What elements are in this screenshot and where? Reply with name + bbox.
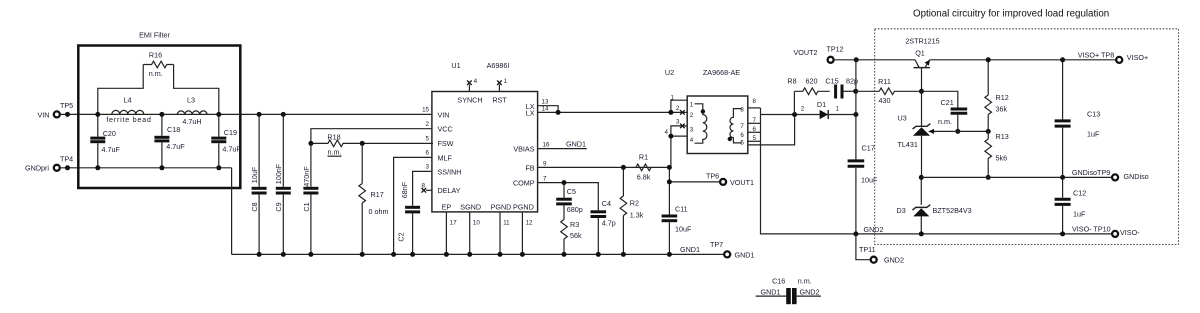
svg-text:GND1: GND1: [680, 245, 700, 254]
svg-text:8: 8: [753, 98, 757, 105]
svg-text:1: 1: [504, 78, 508, 85]
svg-text:TL431: TL431: [898, 140, 918, 149]
svg-text:3: 3: [426, 164, 430, 171]
svg-text:2: 2: [690, 112, 694, 119]
wire VIN rail: [60, 113, 432, 115]
transformer U2 box: [687, 96, 748, 154]
wire SS/INH pin3 branch: [413, 171, 432, 205]
svg-text:ferrite bead: ferrite bead: [106, 115, 151, 124]
EMI filter box: [78, 31, 240, 188]
pin FB 9 wire: [538, 160, 670, 167]
capacitor C19: [211, 114, 241, 167]
test point TP10 / VISO-: [1072, 224, 1140, 237]
test point TP5 / VIN: [38, 101, 74, 119]
svg-text:4: 4: [665, 129, 669, 136]
svg-text:C1: C1: [302, 202, 311, 211]
resistor R2: [620, 165, 644, 257]
test point TP12 / VOUT2: [794, 45, 916, 63]
svg-text:RST: RST: [492, 96, 507, 105]
svg-text:C2: C2: [396, 232, 405, 241]
node VIN-TP5 junction: [65, 112, 70, 117]
svg-text:D1: D1: [817, 100, 826, 109]
wire GND2 bus: [853, 231, 1112, 236]
svg-text:VISO- TP10: VISO- TP10: [1072, 224, 1111, 233]
resistor R1: [636, 153, 651, 182]
pin COMP 7 wire: [538, 176, 599, 211]
svg-text:n.m.: n.m.: [938, 117, 952, 126]
svg-text:1uF: 1uF: [1073, 209, 1086, 218]
svg-text:BZT52B4V3: BZT52B4V3: [933, 206, 972, 215]
capacitor C18: [154, 114, 185, 167]
svg-text:GNDpri: GNDpri: [25, 164, 49, 173]
svg-text:U1: U1: [451, 61, 460, 70]
wire primary pins 3-4 bracket to VOUT1: [665, 118, 688, 167]
transformer secondary winding: [728, 106, 745, 146]
svg-text:11: 11: [503, 219, 510, 226]
svg-text:MLF: MLF: [438, 153, 453, 162]
svg-text:EP: EP: [442, 203, 452, 212]
wire pin8 to D1 node: [761, 114, 795, 116]
svg-text:2: 2: [426, 121, 430, 128]
svg-text:TP6: TP6: [706, 171, 719, 180]
svg-text:EMI Filter: EMI Filter: [139, 31, 170, 40]
wire VISO+ rail: [929, 59, 1116, 61]
svg-text:COMP: COMP: [513, 179, 535, 188]
pin SYNCH stub with X: [467, 78, 478, 92]
svg-text:4: 4: [474, 78, 478, 85]
capacitor C1: [302, 166, 319, 257]
svg-text:VISO-: VISO-: [1120, 228, 1140, 237]
svg-text:VISO+: VISO+: [1127, 53, 1148, 62]
svg-text:36k: 36k: [996, 104, 1008, 113]
wire R16 bypass left: [98, 65, 143, 115]
node GNDpri rail junctions: [95, 165, 221, 170]
svg-text:GND2: GND2: [800, 288, 820, 297]
svg-text:C11: C11: [675, 205, 688, 214]
svg-text:D3: D3: [897, 206, 906, 215]
svg-text:C13: C13: [1087, 109, 1100, 118]
svg-text:TP4: TP4: [60, 154, 73, 163]
svg-text:R13: R13: [996, 132, 1009, 141]
svg-text:C17: C17: [862, 144, 875, 153]
svg-text:GNDisoTP9: GNDisoTP9: [1072, 168, 1110, 177]
U1 internal pin names: [438, 96, 535, 212]
svg-text:620: 620: [806, 77, 818, 86]
capacitor C4: [591, 199, 616, 257]
pin RST stub with X: [497, 78, 508, 92]
svg-text:12: 12: [526, 219, 533, 226]
svg-text:68nF: 68nF: [400, 181, 409, 198]
svg-text:GNDiso: GNDiso: [1124, 172, 1149, 181]
svg-text:R11: R11: [878, 77, 891, 86]
svg-text:L4: L4: [124, 96, 132, 105]
svg-text:6: 6: [740, 132, 744, 139]
test point TP7 / GND1: [710, 240, 754, 260]
svg-text:U3: U3: [898, 113, 907, 122]
svg-text:C5: C5: [567, 187, 576, 196]
pin LX 14 wire to transformer: [538, 106, 671, 115]
resistor R3: [561, 220, 582, 257]
svg-text:5: 5: [426, 136, 430, 143]
pin DELAY not-mounted X: [422, 183, 432, 193]
svg-text:TP7: TP7: [710, 240, 723, 249]
svg-text:17: 17: [450, 219, 457, 226]
svg-text:C9: C9: [274, 202, 283, 211]
svg-text:A6986I: A6986I: [487, 61, 510, 70]
svg-text:SGND: SGND: [460, 203, 481, 212]
svg-text:C4: C4: [602, 199, 611, 208]
test point TP9 / GNDiso: [1072, 168, 1149, 181]
capacitor C11: [662, 165, 692, 257]
svg-text:PGND: PGND: [491, 203, 512, 212]
svg-text:3: 3: [690, 127, 694, 134]
svg-text:15: 15: [422, 107, 429, 114]
svg-text:C15: C15: [825, 77, 838, 86]
svg-text:Optional circuitry for improve: Optional circuitry for improved load reg…: [913, 9, 1109, 20]
svg-text:C18: C18: [167, 125, 180, 134]
capacitor C13: [1055, 57, 1101, 180]
svg-text:GND1: GND1: [735, 251, 755, 260]
svg-text:10: 10: [473, 219, 480, 226]
svg-text:10uF: 10uF: [861, 175, 878, 184]
capacitor C20: [90, 114, 120, 167]
svg-text:GND2: GND2: [884, 256, 904, 265]
resistor R16: [143, 51, 173, 78]
svg-text:n.m.: n.m.: [798, 277, 812, 286]
pin LX 13 wire: [538, 99, 559, 113]
capacitor C8: [250, 112, 267, 257]
svg-text:SS/INH: SS/INH: [438, 167, 462, 176]
svg-text:4.7uF: 4.7uF: [102, 145, 121, 154]
svg-text:Q1: Q1: [915, 48, 925, 57]
svg-text:C8: C8: [250, 202, 259, 211]
svg-text:PGND: PGND: [513, 203, 534, 212]
svg-text:8: 8: [740, 106, 744, 113]
pin VBIAS 16 with GND1 net label: [538, 140, 587, 149]
svg-text:R8: R8: [787, 77, 796, 86]
svg-text:DELAY: DELAY: [438, 186, 461, 195]
resistor R12: [985, 57, 1009, 131]
svg-text:VOUT2: VOUT2: [794, 48, 818, 57]
wire GND1 bus: [232, 253, 725, 255]
svg-text:4.7uF: 4.7uF: [166, 142, 185, 151]
svg-text:R3: R3: [570, 220, 579, 229]
node VIN rail junctions: [95, 112, 221, 117]
svg-text:R1: R1: [639, 153, 648, 162]
svg-text:5k6: 5k6: [996, 153, 1008, 162]
svg-text:10uF: 10uF: [675, 224, 692, 233]
svg-text:2: 2: [676, 105, 680, 112]
inductor L4 ferrite bead: [106, 96, 151, 124]
svg-text:470nF: 470nF: [302, 166, 311, 187]
capacitor C5: [556, 183, 583, 220]
capacitor C2: [396, 181, 420, 257]
svg-text:C20: C20: [103, 129, 116, 138]
svg-text:6: 6: [426, 150, 430, 157]
capacitor C12: [1055, 177, 1087, 236]
svg-text:ZA9668-AE: ZA9668-AE: [703, 68, 740, 77]
svg-text:FSW: FSW: [438, 139, 454, 148]
svg-text:14: 14: [542, 106, 549, 113]
capacitor C21: [922, 91, 968, 134]
svg-text:7: 7: [543, 176, 547, 183]
inductor L3 4.7uH: [177, 96, 207, 126]
svg-text:16: 16: [543, 142, 550, 149]
svg-text:1uF: 1uF: [1087, 130, 1100, 139]
svg-text:VBIAS: VBIAS: [513, 145, 534, 154]
resistor R18: [308, 132, 432, 156]
svg-text:430: 430: [879, 96, 891, 105]
svg-text:10uF: 10uF: [250, 166, 259, 183]
svg-text:TP12: TP12: [827, 45, 844, 54]
wire GNDpri rail: [60, 167, 232, 169]
svg-text:1: 1: [690, 102, 694, 109]
svg-text:2: 2: [801, 105, 805, 112]
svg-text:VIN: VIN: [438, 110, 450, 119]
svg-text:LX: LX: [526, 109, 535, 118]
pin 8 stub secondary: [748, 98, 761, 108]
svg-text:56k: 56k: [570, 231, 582, 240]
test point TP6 / VOUT1: [706, 171, 754, 187]
svg-text:C12: C12: [1073, 188, 1086, 197]
svg-text:U2: U2: [665, 68, 674, 77]
svg-text:R12: R12: [996, 93, 1009, 102]
wire primary pins 1-2 bracket: [668, 95, 687, 115]
svg-text:680p: 680p: [567, 205, 583, 214]
svg-text:9: 9: [543, 160, 547, 167]
transistor Q1 2STR1215: [905, 36, 939, 91]
svg-text:R2: R2: [630, 198, 639, 207]
transformer primary winding: [690, 102, 707, 145]
svg-text:1.3k: 1.3k: [630, 210, 644, 219]
U1 left pin numbers: [422, 107, 429, 171]
svg-text:n.m.: n.m.: [149, 69, 163, 78]
node GNDpri-TP4 junction: [65, 165, 70, 170]
svg-text:L3: L3: [187, 96, 195, 105]
svg-text:R17: R17: [371, 190, 384, 199]
resistor R17: [359, 141, 389, 257]
capacitor C17: [848, 60, 878, 234]
wire secondary return to GND2: [761, 108, 856, 234]
capacitor C15: [825, 77, 858, 99]
svg-text:GND1: GND1: [761, 288, 781, 297]
svg-text:0 ohm: 0 ohm: [369, 207, 389, 216]
svg-text:VIN: VIN: [38, 110, 50, 119]
svg-text:VOUT1: VOUT1: [730, 178, 754, 187]
capacitor C16 GND1-GND2: [756, 277, 821, 305]
node MLF-GND junction: [391, 252, 396, 257]
capacitor C9: [274, 112, 291, 257]
test point TP8 / VISO+: [1078, 50, 1148, 63]
svg-text:VISO+ TP8: VISO+ TP8: [1078, 50, 1114, 59]
svg-text:C21: C21: [941, 98, 954, 107]
svg-text:100nF: 100nF: [274, 163, 283, 184]
resistor R11: [856, 77, 924, 105]
U1 bottom pins EP SGND PGND PGND: [444, 212, 533, 257]
wire MLF pin6 branch: [394, 157, 432, 254]
svg-text:2STR1215: 2STR1215: [905, 36, 939, 45]
test point TP11 / GND2: [856, 234, 904, 265]
svg-text:GND1: GND1: [566, 140, 586, 149]
wire VCC pin2 branch: [311, 129, 432, 187]
transformer U2 ZA9668-AE labels: [665, 68, 740, 77]
svg-text:4.7uH: 4.7uH: [182, 117, 201, 126]
svg-text:4: 4: [690, 137, 694, 144]
svg-text:3: 3: [676, 118, 680, 125]
wire TL431 ref line: [928, 129, 991, 134]
svg-text:VCC: VCC: [438, 125, 453, 134]
svg-text:4.7p: 4.7p: [602, 218, 616, 227]
pin 7 stub: [748, 117, 761, 124]
diode D1: [792, 100, 858, 119]
svg-text:n.m.: n.m.: [328, 148, 342, 157]
svg-text:SYNCH: SYNCH: [457, 96, 482, 105]
zener diode D3 BZT52B4V3: [897, 175, 972, 237]
pin 5 stub to D1 node: [748, 115, 795, 145]
svg-text:5: 5: [740, 140, 744, 147]
op-amp U1 A6986I regulator box: [432, 61, 538, 212]
svg-text:C19: C19: [224, 128, 237, 137]
dashed box optional circuitry: [875, 29, 1179, 245]
shunt regulator U3 TL431: [898, 91, 931, 177]
wire R16 bypass right: [174, 65, 219, 115]
svg-text:4.7uF: 4.7uF: [222, 145, 241, 154]
test point TP4 / GNDpri: [25, 154, 73, 172]
svg-text:1: 1: [836, 105, 840, 112]
svg-text:TP11: TP11: [859, 245, 876, 254]
svg-text:GND2: GND2: [864, 225, 884, 234]
svg-text:TP5: TP5: [60, 101, 73, 110]
svg-text:7: 7: [740, 123, 744, 130]
wire GNDpri to GND1 bus: [231, 168, 233, 255]
svg-text:FB: FB: [525, 163, 534, 172]
svg-text:C16: C16: [772, 277, 785, 286]
wire GNDiso rail: [921, 176, 1112, 178]
svg-text:6.8k: 6.8k: [637, 173, 651, 182]
resistor R13: [985, 131, 1009, 180]
pin 6 stub: [748, 126, 761, 133]
wire VOUT1: [667, 179, 720, 184]
svg-text:R16: R16: [149, 51, 162, 60]
resistor R8: [787, 77, 829, 115]
